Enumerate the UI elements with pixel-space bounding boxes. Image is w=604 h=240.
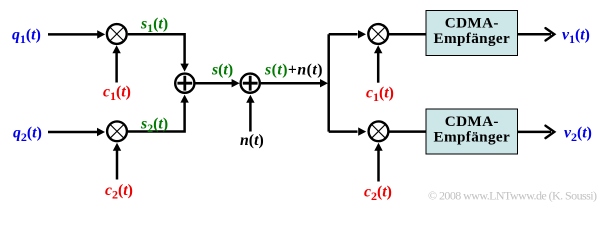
svg-text:c1(t): c1(t): [103, 83, 131, 103]
svg-text:c2(t): c2(t): [364, 183, 392, 203]
svg-text:n(t): n(t): [240, 132, 264, 149]
svg-text:© 2008 www.LNTwww.de (K. Souss: © 2008 www.LNTwww.de (K. Soussi): [428, 189, 597, 203]
svg-text:q1(t): q1(t): [12, 26, 41, 46]
svg-text:Empfänger: Empfänger: [434, 128, 511, 145]
svg-text:s(t): s(t): [211, 61, 233, 78]
svg-text:s2(t): s2(t): [140, 115, 168, 135]
svg-text:v2(t): v2(t): [564, 125, 592, 145]
svg-text:c1(t): c1(t): [366, 84, 394, 104]
svg-text:Empfänger: Empfänger: [434, 30, 511, 47]
svg-text:s1(t): s1(t): [140, 15, 168, 35]
svg-text:s(t)+n(t): s(t)+n(t): [264, 61, 323, 78]
svg-text:q2(t): q2(t): [13, 124, 42, 144]
svg-text:v1(t): v1(t): [562, 27, 590, 47]
svg-text:c2(t): c2(t): [105, 182, 133, 202]
